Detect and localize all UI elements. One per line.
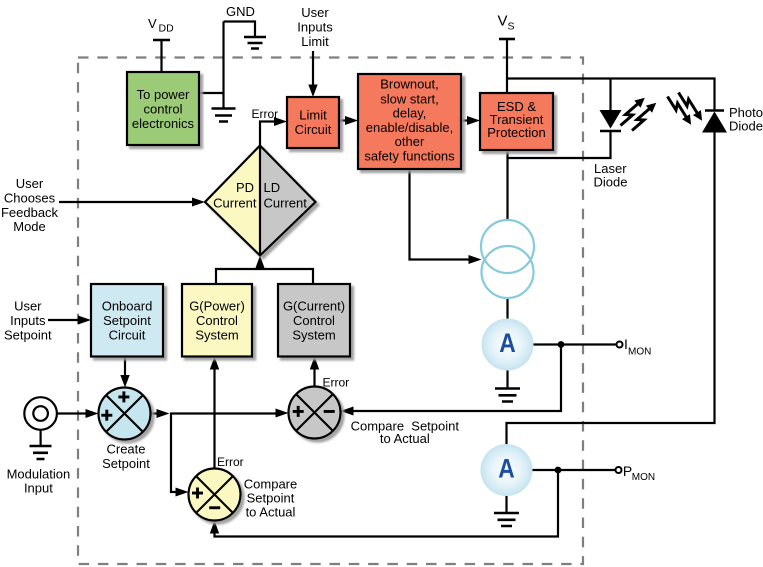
svg-text:DD: DD — [159, 23, 175, 35]
svg-text:Compare: Compare — [244, 477, 297, 492]
svg-text:Modulation: Modulation — [7, 467, 71, 482]
svg-text:Setpoint: Setpoint — [102, 456, 150, 471]
svg-text:G(Current): G(Current) — [283, 299, 345, 314]
svg-text:Control: Control — [293, 313, 335, 328]
svg-text:LD: LD — [264, 180, 281, 195]
svg-text:other: other — [395, 134, 425, 149]
svg-text:A: A — [498, 454, 515, 484]
svg-text:to Actual: to Actual — [246, 505, 296, 520]
svg-text:Limit: Limit — [301, 34, 329, 49]
svg-text:Inputs: Inputs — [297, 20, 333, 35]
svg-text:Diode: Diode — [729, 119, 763, 134]
svg-text:delay,: delay, — [393, 105, 427, 120]
svg-text:slow start,: slow start, — [380, 91, 439, 106]
svg-text:Setpoint: Setpoint — [247, 491, 295, 506]
svg-text:electronics: electronics — [132, 116, 195, 131]
svg-text:Onboard: Onboard — [102, 299, 153, 314]
svg-text:Setpoint: Setpoint — [103, 313, 151, 328]
svg-text:V: V — [148, 16, 157, 31]
svg-text:Chooses: Chooses — [4, 190, 56, 205]
svg-text:GND: GND — [226, 4, 255, 19]
svg-text:safety functions: safety functions — [364, 148, 455, 163]
svg-text:to Actual: to Actual — [380, 431, 430, 446]
svg-text:Inputs: Inputs — [10, 313, 46, 328]
svg-text:Circuit: Circuit — [109, 327, 146, 342]
svg-text:Protection: Protection — [487, 125, 546, 140]
svg-text:System: System — [195, 327, 238, 342]
svg-text:User: User — [16, 176, 44, 191]
svg-text:System: System — [292, 327, 335, 342]
svg-text:Mode: Mode — [13, 219, 46, 234]
svg-text:Feedback: Feedback — [1, 205, 59, 220]
svg-text:Create: Create — [106, 442, 145, 457]
svg-text:Current: Current — [213, 196, 257, 211]
svg-text:PD: PD — [236, 180, 254, 195]
svg-text:Control: Control — [196, 313, 238, 328]
svg-text:Error: Error — [252, 107, 279, 121]
svg-text:MON: MON — [632, 472, 655, 483]
svg-text:V: V — [498, 13, 508, 30]
svg-text:User: User — [301, 5, 329, 20]
svg-text:Error: Error — [217, 455, 244, 469]
svg-text:Input: Input — [24, 481, 53, 496]
svg-text:To power: To power — [137, 87, 190, 102]
svg-text:MON: MON — [628, 347, 651, 358]
svg-text:Circuit: Circuit — [295, 122, 332, 137]
svg-text:Current: Current — [264, 196, 308, 211]
svg-text:Brownout,: Brownout, — [380, 77, 439, 92]
svg-text:control: control — [143, 102, 182, 117]
svg-text:Error: Error — [323, 375, 350, 389]
svg-text:enable/disable,: enable/disable, — [366, 120, 453, 135]
svg-text:G(Power): G(Power) — [189, 299, 245, 314]
svg-text:S: S — [508, 21, 515, 33]
svg-text:Setpoint: Setpoint — [4, 327, 52, 342]
svg-text:A: A — [499, 328, 516, 358]
svg-text:Limit: Limit — [299, 108, 327, 123]
svg-text:Diode: Diode — [594, 175, 628, 190]
svg-text:User: User — [14, 299, 42, 314]
